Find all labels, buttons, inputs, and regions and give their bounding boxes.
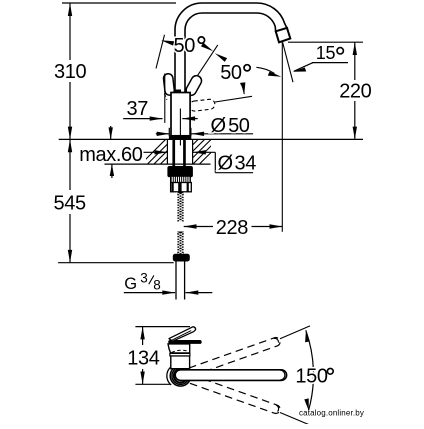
svg-text:3: 3	[140, 271, 148, 286]
svg-text:catalog.onliner.by: catalog.onliner.by	[299, 408, 364, 417]
svg-text:37: 37	[127, 98, 149, 120]
svg-text:50: 50	[220, 62, 242, 84]
svg-text:50: 50	[174, 35, 196, 57]
svg-text:228: 228	[216, 217, 248, 239]
svg-text:G: G	[124, 275, 137, 293]
svg-text:Ø34: Ø34	[218, 153, 257, 175]
svg-text:150: 150	[295, 366, 327, 388]
svg-text:max.60: max.60	[79, 144, 142, 166]
svg-text:310: 310	[54, 61, 86, 83]
svg-text:15: 15	[316, 43, 336, 63]
svg-text:220: 220	[339, 81, 371, 103]
svg-text:8: 8	[153, 278, 161, 293]
svg-text:Ø50: Ø50	[211, 115, 250, 137]
svg-text:134: 134	[127, 348, 159, 370]
svg-text:545: 545	[54, 193, 86, 215]
